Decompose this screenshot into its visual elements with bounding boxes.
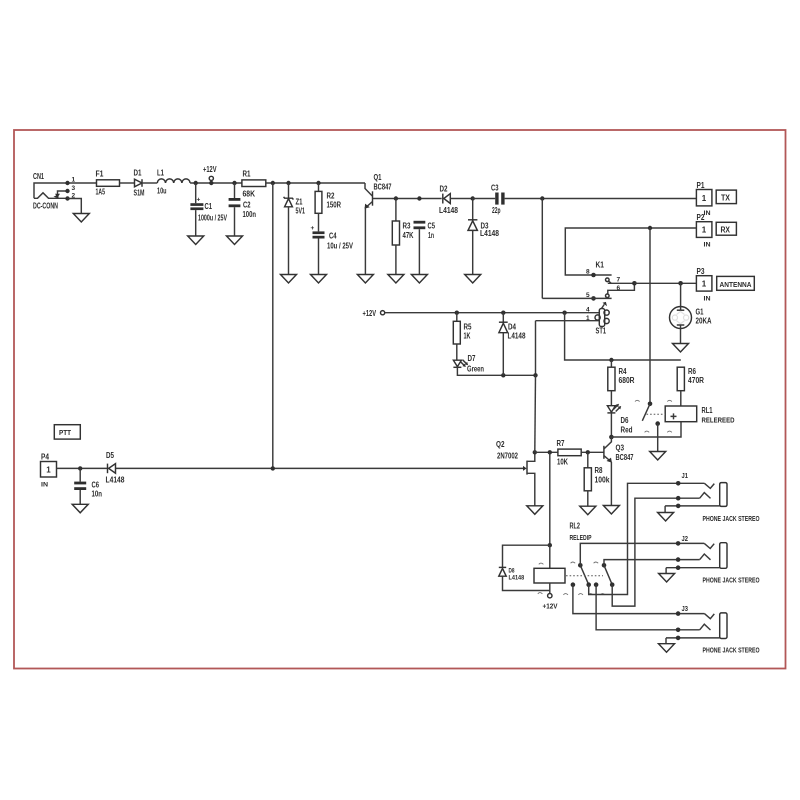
svg-text:1000u / 25V: 1000u / 25V — [198, 214, 227, 223]
node R2 tap — [316, 181, 320, 185]
LED D7 (Green) — [453, 354, 484, 374]
svg-text:CN1: CN1 — [33, 172, 44, 181]
svg-text:1K: 1K — [464, 332, 471, 341]
transistor Q1 (BC847) — [365, 173, 392, 275]
svg-text:G1: G1 — [696, 308, 704, 317]
wire K1 pin5 feed vertical — [541, 199, 543, 299]
node RL1 contact to ground — [655, 421, 660, 426]
svg-text:D6: D6 — [621, 416, 629, 425]
svg-text:10n: 10n — [92, 490, 103, 499]
node C6 tap — [78, 466, 82, 470]
svg-text:10u / 25V: 10u / 25V — [327, 242, 353, 251]
node D3 tap — [471, 196, 475, 200]
ground (Q1 emitter) — [357, 275, 373, 284]
svg-text:1: 1 — [72, 177, 76, 184]
svg-text:100k: 100k — [595, 476, 610, 485]
svg-text:P4: P4 — [41, 453, 49, 462]
ground (RL1 contact) — [650, 452, 666, 461]
connector P2 pin 1 — [696, 213, 712, 249]
svg-text:10K: 10K — [557, 458, 568, 467]
svg-text:P2: P2 — [697, 213, 705, 222]
fuse F1 — [96, 170, 120, 197]
svg-text:Z1: Z1 — [296, 198, 303, 207]
resistor R5 (1K) — [453, 313, 472, 360]
relay coil RL2 (RELEDIP) — [534, 522, 592, 594]
RL2 stationary contact a — [571, 582, 576, 587]
surge arrester G1 (20KA) — [670, 283, 712, 343]
svg-text:RELEREED: RELEREED — [702, 418, 735, 425]
svg-text:1: 1 — [702, 280, 707, 289]
connector CN1 (DC jack) — [33, 172, 97, 211]
resistor R3 (47K) — [392, 199, 413, 275]
wire arm2 bottom to J1 ring — [612, 498, 700, 606]
diode D5 (L4148) — [106, 451, 125, 485]
node ST1/D7 drain junction — [533, 373, 537, 377]
wire arm1 bottom to J1 tip — [589, 483, 705, 594]
ground (C1) — [188, 236, 204, 245]
svg-text:8: 8 — [586, 269, 590, 276]
svg-text:P3: P3 — [697, 267, 705, 276]
svg-text:L4148: L4148 — [480, 229, 499, 238]
connector P4 pin 1 — [41, 453, 57, 489]
svg-text:DC-CONN: DC-CONN — [33, 202, 58, 211]
svg-text:PHONE JACK STEREO: PHONE JACK STEREO — [703, 516, 760, 523]
node R3 tap — [394, 196, 398, 200]
wire D1 to L1 — [142, 182, 157, 184]
svg-text:+12V: +12V — [543, 602, 558, 611]
svg-text:100n: 100n — [243, 210, 257, 219]
wire +12V feed down to R4/R6 rail — [565, 313, 681, 360]
svg-text:R2: R2 — [327, 192, 335, 201]
ground (C4) — [311, 275, 327, 284]
node Q2 drain junction — [533, 450, 537, 454]
svg-text:+: + — [197, 197, 201, 204]
relay coil RL1 (RELEREED) — [665, 406, 734, 425]
diode D3 (L4148) — [468, 199, 499, 275]
svg-text:20KA: 20KA — [696, 317, 712, 326]
node D4 bottom tap — [501, 373, 505, 377]
svg-text:R4: R4 — [619, 367, 627, 376]
svg-text:PHONE JACK STEREO: PHONE JACK STEREO — [703, 578, 760, 585]
wire P4 to D5 — [57, 467, 108, 469]
wire D5 to Q2 gate — [116, 467, 273, 469]
capacitor C4 (electrolytic 10u/25V) — [311, 225, 354, 275]
svg-text:IN: IN — [41, 482, 48, 489]
wire drain vertical — [534, 375, 537, 452]
resistor R8 (100k) — [584, 452, 610, 506]
wire drain node to R7 — [535, 451, 558, 453]
svg-text:Green: Green — [467, 365, 484, 374]
wire L1 to R1 (main +12V rail) — [190, 182, 242, 184]
svg-text:R6: R6 — [688, 367, 696, 376]
svg-text:RL2: RL2 — [570, 522, 581, 531]
svg-text:IN: IN — [704, 242, 711, 249]
svg-text:1n: 1n — [428, 231, 434, 240]
svg-text:1: 1 — [702, 194, 707, 203]
capacitor C6 (10n) — [74, 468, 102, 504]
CN1 pin 3 — [65, 189, 69, 193]
node RL2 feed tap — [548, 450, 552, 454]
connector P1 pin 1 — [696, 181, 712, 217]
svg-text:R3: R3 — [403, 222, 411, 231]
node R8 tap — [586, 450, 590, 454]
svg-text:ANTENNA: ANTENNA — [720, 280, 753, 289]
svg-text:ST1: ST1 — [596, 327, 607, 336]
svg-text:+: + — [311, 225, 315, 232]
contact tick marks RL1 — [635, 400, 640, 401]
svg-text:J2: J2 — [682, 536, 689, 543]
resistor R7 (10K) — [557, 439, 582, 467]
capacitor C3 (22p) — [473, 184, 505, 216]
wire +12V rail to ST1 pin 4 — [385, 312, 600, 314]
svg-text:470R: 470R — [688, 376, 704, 385]
svg-text:L4148: L4148 — [106, 476, 125, 485]
node RL2 +12V terminal — [543, 594, 558, 611]
diode D4 (L4148) — [499, 313, 526, 376]
node C1 tap — [194, 181, 198, 185]
wire long vertical to PTT line — [272, 183, 274, 468]
svg-text:1: 1 — [702, 226, 707, 235]
wire D7 to drain node — [457, 367, 535, 375]
svg-text:5V1: 5V1 — [296, 207, 306, 216]
svg-text:TX: TX — [721, 194, 731, 203]
svg-text:Red: Red — [621, 426, 633, 435]
svg-text:Q3: Q3 — [616, 444, 625, 453]
svg-text:+12V: +12V — [203, 165, 217, 174]
ground (C2) — [227, 236, 243, 245]
node G1 tap — [678, 281, 683, 286]
svg-text:L1: L1 — [157, 169, 164, 178]
svg-text:D4: D4 — [508, 323, 516, 332]
ground (D3) — [465, 275, 481, 284]
svg-text:C6: C6 — [92, 481, 100, 490]
label box TX — [716, 190, 736, 204]
svg-text:R8: R8 — [595, 466, 603, 475]
node K1 common junction — [632, 281, 637, 286]
wire C3 to P1 — [505, 198, 697, 200]
ground (C5) — [411, 275, 427, 284]
label box PTT — [54, 425, 80, 439]
LED D6 (Red) — [607, 404, 632, 435]
svg-text:10u: 10u — [157, 187, 167, 196]
svg-text:+12V: +12V — [363, 309, 377, 318]
diode D2 (L4148) — [439, 185, 473, 216]
svg-text:RELEDIP: RELEDIP — [570, 535, 592, 542]
contact tick marks RL2 — [571, 562, 576, 563]
svg-text:R7: R7 — [557, 439, 565, 448]
svg-text:S1M: S1M — [134, 189, 145, 198]
connector P3 pin 1 — [696, 267, 712, 303]
wire CN1 pin2 to ground — [68, 199, 82, 214]
svg-text:1: 1 — [46, 465, 51, 474]
svg-text:680R: 680R — [619, 376, 635, 385]
wire K1 common to P3 — [634, 282, 696, 284]
svg-text:RL1: RL1 — [702, 406, 713, 415]
node +12V mid terminal — [363, 309, 385, 318]
svg-text:BC847: BC847 — [616, 453, 634, 462]
ground (R8) — [580, 506, 596, 515]
node PTT pull junction — [271, 466, 275, 470]
node C5 tap — [417, 196, 421, 200]
ground (CN1) — [73, 214, 89, 223]
wire arm1 top to J2 tip — [580, 543, 704, 565]
red page border frame — [14, 130, 786, 669]
ground (J1) — [658, 513, 674, 522]
wire contact b to J3 ring — [596, 585, 700, 630]
svg-text:3: 3 — [72, 185, 76, 192]
transistor Q3 (BC847) — [604, 437, 634, 506]
capacitor C2 (100n) — [229, 183, 256, 236]
node D4 tap — [501, 311, 505, 315]
node R4/R6 feed tap — [562, 311, 566, 315]
resistor R2 (150R) — [315, 183, 341, 231]
svg-text:D1: D1 — [134, 169, 142, 178]
svg-text:68K: 68K — [243, 190, 256, 199]
RL2 stationary contact b — [594, 582, 599, 587]
svg-text:C2: C2 — [243, 201, 251, 210]
label box ANTENNA — [717, 276, 755, 290]
node D8 tap — [548, 543, 552, 547]
node Q3 collector junction — [609, 435, 614, 440]
coil tick RL2 — [539, 563, 544, 564]
svg-text:150R: 150R — [327, 201, 342, 210]
capacitor C1 (electrolytic 1000u/25V) — [190, 183, 227, 236]
wire contact to ground — [657, 424, 659, 452]
wire arm2 top to J2 ring — [604, 560, 700, 566]
diode D1 — [134, 169, 145, 198]
svg-text:R5: R5 — [464, 323, 472, 332]
node PTT pull vertical tap — [271, 181, 275, 185]
resistor R1 (68K) — [242, 170, 266, 199]
svg-text:7: 7 — [617, 277, 621, 284]
RL1 contact arm — [642, 402, 665, 421]
wire R7 to Q3 base — [581, 451, 604, 453]
svg-text:P1: P1 — [697, 181, 705, 190]
ground (C6) — [72, 504, 88, 513]
svg-text:22p: 22p — [492, 206, 501, 215]
node R5 tap — [455, 311, 459, 315]
wire RL2 feed down — [549, 452, 551, 545]
ground (Q2 source) — [527, 506, 543, 515]
phone jack J3 — [666, 606, 760, 655]
svg-text:D7: D7 — [468, 354, 476, 363]
zener Z1 (5V1) — [284, 183, 306, 275]
svg-text:1A5: 1A5 — [96, 188, 106, 197]
wire ST1 pin1 down leg — [535, 321, 537, 376]
node K1 feed tap — [540, 196, 544, 200]
wire RX line down to RL1 contact — [649, 228, 651, 404]
inductor L1 — [157, 169, 190, 196]
svg-text:D2: D2 — [440, 185, 448, 194]
phone jack J1 — [665, 473, 760, 523]
diode D8 (L4148) — [499, 567, 550, 590]
wire P2 to K1 pin 8 — [565, 228, 696, 275]
ground (J2) — [659, 574, 675, 583]
CN1 pin 1 — [65, 181, 69, 185]
svg-text:C5: C5 — [428, 222, 436, 231]
ground (J3) — [659, 644, 675, 653]
svg-text:4: 4 — [586, 307, 590, 314]
phone jack J2 — [666, 536, 760, 585]
svg-text:Q1: Q1 — [374, 173, 382, 182]
svg-text:J1: J1 — [682, 473, 689, 480]
label box RX — [716, 222, 736, 235]
svg-text:PHONE JACK STEREO: PHONE JACK STEREO — [703, 648, 760, 655]
svg-text:F1: F1 — [96, 170, 104, 179]
resistor R4 (680R) — [608, 360, 635, 406]
wire contact a to J3 tip — [573, 585, 705, 614]
svg-text:RX: RX — [721, 225, 731, 234]
node C2 tap — [232, 181, 236, 185]
RL2 contact arm 2 — [602, 563, 615, 587]
svg-text:L4148: L4148 — [508, 332, 526, 341]
svg-text:Q2: Q2 — [496, 440, 505, 449]
node Z1 tap — [286, 181, 290, 185]
wire F1 to D1 — [120, 182, 135, 184]
node RX vertical tap — [648, 226, 652, 230]
wire Q1 base line — [373, 198, 442, 200]
svg-text:C4: C4 — [329, 232, 337, 241]
wire D8 branch — [503, 545, 550, 567]
capacitor C5 (1n) — [414, 221, 436, 275]
svg-text:C1: C1 — [205, 202, 213, 211]
svg-text:R1: R1 — [243, 170, 251, 179]
svg-text:J3: J3 — [682, 606, 689, 613]
RL2 contact arm 1 — [578, 563, 591, 587]
ground (G1) — [673, 344, 689, 353]
svg-text:D5: D5 — [106, 451, 114, 460]
ground (Q3 emitter) — [603, 506, 619, 515]
svg-text:IN: IN — [704, 296, 711, 303]
svg-text:C3: C3 — [491, 184, 499, 193]
svg-text:47K: 47K — [403, 231, 414, 240]
wire R1 to Q1 — [266, 182, 365, 184]
relay contacts K1 — [542, 261, 634, 301]
transistor Q2 (2N7002 MOSFET) — [273, 440, 535, 506]
node +12V terminal — [203, 165, 217, 185]
node R4 tap — [609, 358, 613, 362]
jack ST1 — [536, 302, 610, 336]
dashed link RL2 — [566, 575, 603, 577]
svg-text:K1: K1 — [596, 261, 605, 270]
svg-text:IN: IN — [704, 210, 711, 217]
svg-text:2N7002: 2N7002 — [497, 452, 518, 461]
ground (Z1) — [281, 275, 297, 284]
resistor R6 (470R) — [677, 367, 704, 406]
CN1 pin 2 — [65, 196, 69, 200]
ground (R3) — [388, 275, 404, 284]
svg-text:D8: D8 — [509, 569, 516, 575]
wire D6 to collector node — [610, 413, 612, 437]
svg-text:L4148: L4148 — [509, 576, 525, 582]
wire collector node to RL1 coil — [611, 422, 681, 437]
svg-text:BC847: BC847 — [374, 183, 392, 192]
svg-text:PTT: PTT — [59, 428, 71, 437]
svg-text:L4148: L4148 — [439, 206, 458, 215]
